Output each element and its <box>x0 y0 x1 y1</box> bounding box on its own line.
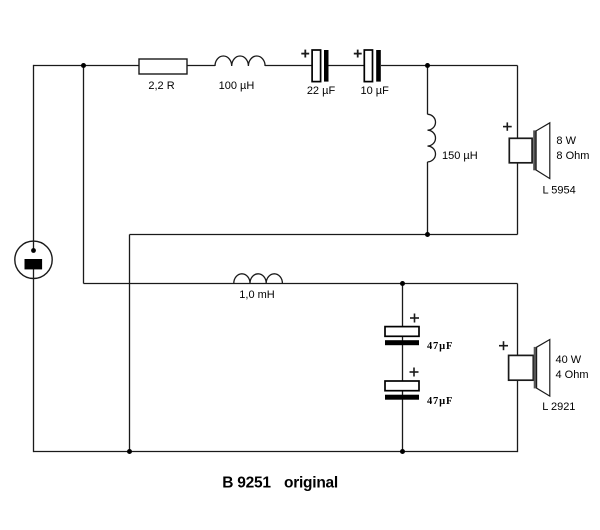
junction caps top <box>400 281 405 286</box>
wire left vertical lower <box>33 268 35 452</box>
capacitor C1 <box>301 50 328 82</box>
wire top rail left segment <box>34 65 140 67</box>
wire vertical x427 L2 to rail <box>427 162 429 235</box>
wire vertical x402 caps branch <box>402 284 404 453</box>
svg-text:4 Ohm: 4 Ohm <box>556 369 589 381</box>
svg-text:1,0 mH: 1,0 mH <box>239 289 275 301</box>
svg-text:40 W: 40 W <box>556 354 582 366</box>
capacitor C4 <box>385 368 419 400</box>
svg-text:8 Ohm: 8 Ohm <box>556 150 589 162</box>
junction L2 bottom <box>425 232 430 237</box>
junction caps bottom <box>400 449 405 454</box>
wire vertical x129 return <box>129 235 131 453</box>
resistor R1 <box>139 59 187 74</box>
svg-text:47µF: 47µF <box>427 396 453 407</box>
wire vertical x427 node B to L2 <box>427 66 429 115</box>
svg-text:10 µF: 10 µF <box>361 85 390 97</box>
wire top rail inductor to C1 <box>265 65 312 67</box>
svg-text:150 µH: 150 µH <box>442 150 478 162</box>
wire right vertical tweeter <box>517 66 519 235</box>
inductor L1 <box>215 56 265 66</box>
svg-text:8 W: 8 W <box>556 135 576 147</box>
junction x129 bottom <box>127 449 132 454</box>
speaker LS2 <box>499 340 550 397</box>
capacitor C2 <box>354 50 381 82</box>
svg-text:22 µF: 22 µF <box>307 85 336 97</box>
node A junction <box>81 63 86 68</box>
svg-text:original: original <box>284 474 338 491</box>
wire right vertical woofer <box>517 284 519 453</box>
input terminal J1 <box>15 241 52 278</box>
wire vertical from node A down to woofer rail <box>83 66 85 284</box>
svg-text:B 9251: B 9251 <box>222 474 271 491</box>
svg-text:L 5954: L 5954 <box>543 185 576 197</box>
wire bottom rail <box>34 451 518 453</box>
svg-text:2,2 R: 2,2 R <box>148 80 174 92</box>
capacitor C3 <box>385 314 419 346</box>
wire top rail C1 to C2 <box>329 65 365 67</box>
wire top rail resistor to inductor <box>187 65 215 67</box>
svg-text:L 2921: L 2921 <box>542 401 575 413</box>
svg-text:47µF: 47µF <box>427 341 453 352</box>
node B junction <box>425 63 430 68</box>
inductor L3 <box>234 274 283 284</box>
speaker LS1 <box>503 122 550 178</box>
wire left vertical upper <box>33 65 35 251</box>
wire top rail C2 to right corner <box>381 65 518 67</box>
wire woofer rail <box>84 283 518 285</box>
inductor L2 <box>428 114 436 162</box>
svg-text:100 µH: 100 µH <box>219 80 255 92</box>
wire tweeter return rail <box>130 234 518 236</box>
